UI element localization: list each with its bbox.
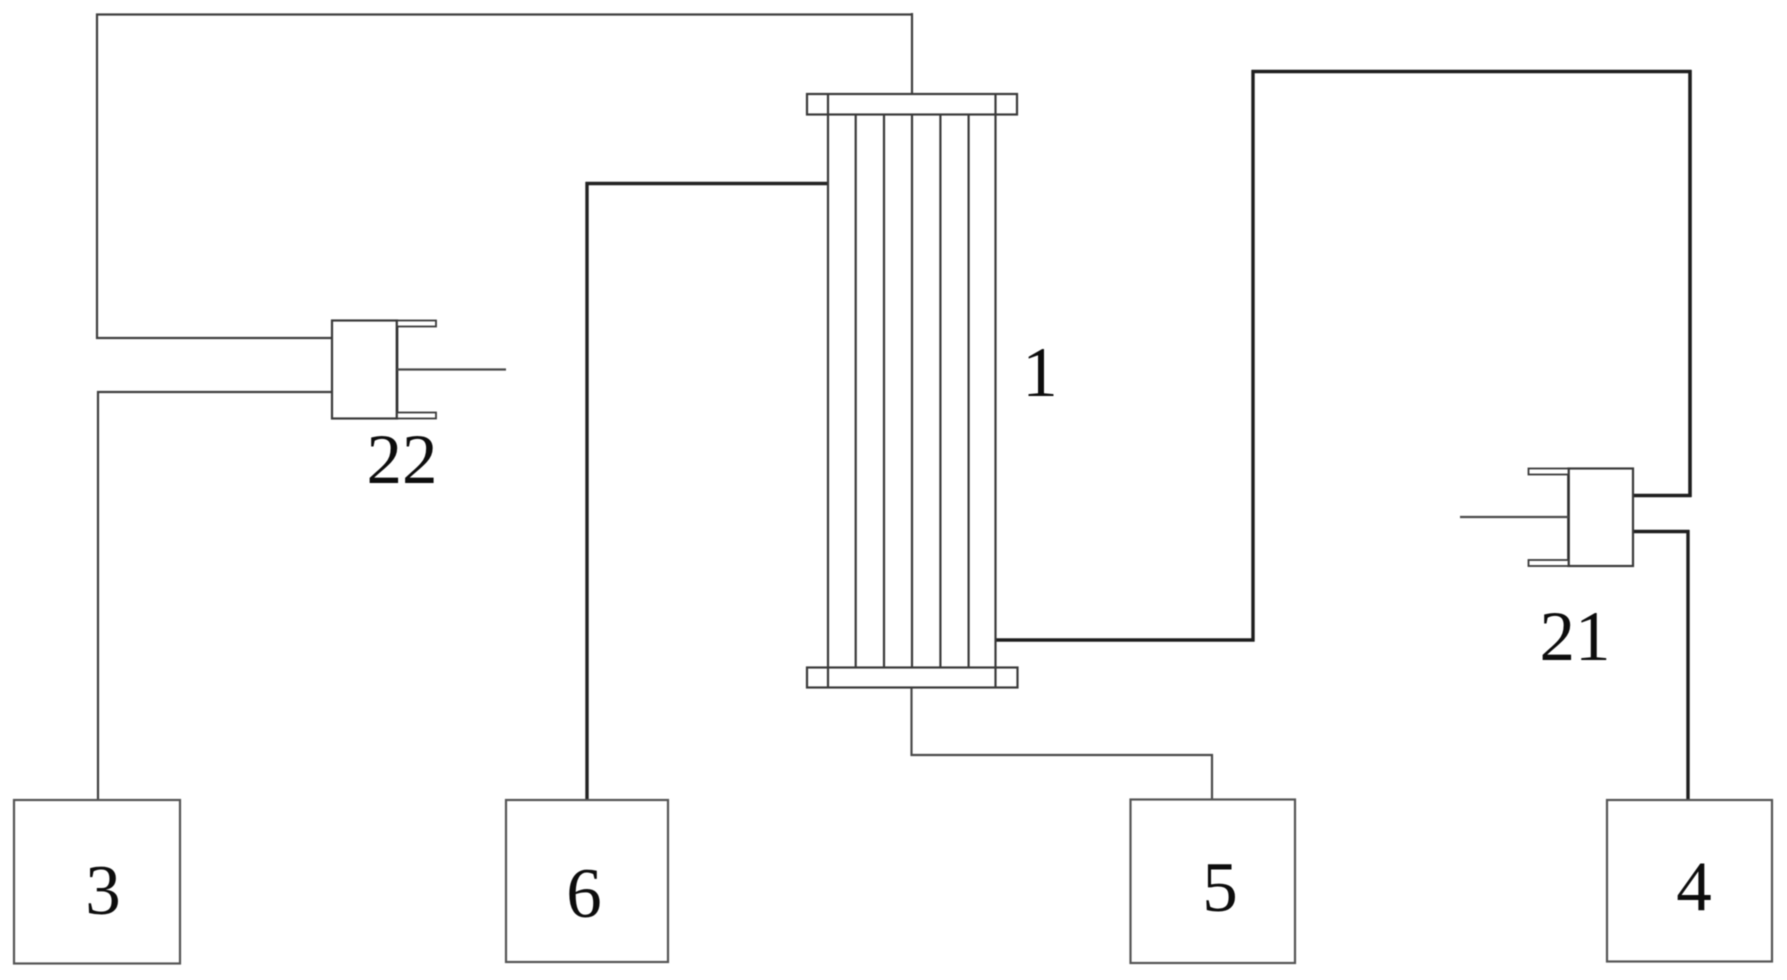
heat exchanger 1 top header flange — [807, 94, 1017, 115]
label 22 — [367, 421, 438, 499]
valve 21 middle stem line — [1460, 516, 1569, 518]
wire horizontal into valve 22 upper-left port — [96, 337, 332, 339]
wire vertical into box 5 — [1211, 754, 1213, 800]
heat exchanger 1 tube line c — [911, 115, 913, 668]
wire thick horizontal from right side of heat exchanger 1 — [996, 638, 1255, 641]
box 4 — [1607, 800, 1772, 962]
wire top-left horizontal from node above 3 to top of heat exchanger 1 — [96, 13, 913, 15]
heat exchanger 1 shell left wall — [827, 94, 829, 688]
valve 21 stem plate — [1567, 468, 1570, 568]
svg-text:3: 3 — [85, 852, 121, 930]
svg-text:5: 5 — [1202, 849, 1238, 927]
svg-text:6: 6 — [566, 855, 602, 933]
label 3 — [85, 852, 121, 930]
box 5 — [1131, 800, 1296, 964]
label 6 — [566, 855, 602, 933]
svg-text:1: 1 — [1022, 334, 1058, 412]
valve 21 upper prong — [1529, 469, 1569, 475]
valve 22 body — [332, 321, 397, 419]
svg-text:21: 21 — [1540, 598, 1611, 676]
heat exchanger 1 tube line b — [883, 115, 885, 668]
heat exchanger 1 bottom header flange — [807, 668, 1018, 688]
label 1 — [1022, 334, 1058, 412]
heat exchanger 1 shell right wall — [994, 94, 996, 688]
wire thick horizontal from valve 21 lower-right port — [1633, 530, 1690, 533]
valve 21 lower prong — [1529, 560, 1569, 566]
wire thick vertical down to box 4 — [1686, 530, 1689, 800]
svg-text:4: 4 — [1676, 848, 1712, 926]
wire thick vertical from box 6 — [585, 182, 588, 800]
wire left vertical lower segment down to box 3 — [97, 391, 99, 800]
valve 22 stem plate — [396, 320, 399, 420]
wire horizontal from valve 22 lower-left port — [97, 391, 332, 393]
valve 22 middle stem line — [397, 368, 506, 370]
valve 21 body — [1569, 469, 1634, 567]
valve 22 upper prong — [397, 321, 436, 327]
heat exchanger 1 tube line d — [939, 115, 941, 668]
wire left vertical upper segment — [96, 14, 98, 340]
box 3 — [14, 800, 180, 964]
wire thick vertical descending to valve 21 upper-right port — [1688, 70, 1692, 497]
wire vertical from bottom header of heat exchanger 1 — [910, 687, 912, 756]
box 6 — [506, 800, 668, 962]
heat exchanger 1 tube line e — [967, 115, 969, 668]
wire thick horizontal top-right run — [1252, 70, 1692, 74]
wire thick vertical rising to top-right run — [1251, 70, 1254, 642]
heat exchanger 1 tube line a — [855, 115, 857, 668]
wire vertical into top header of heat exchanger 1 — [911, 13, 913, 95]
label 21 — [1540, 598, 1611, 676]
svg-text:22: 22 — [367, 421, 438, 499]
wire thick horizontal into left side of heat exchanger 1 — [586, 182, 829, 185]
wire thick horizontal into valve 21 upper-right port — [1633, 494, 1692, 497]
wire horizontal toward box 5 — [911, 754, 1214, 756]
label 5 — [1202, 849, 1238, 927]
label 4 — [1676, 848, 1712, 926]
valve 22 lower prong — [397, 413, 436, 419]
